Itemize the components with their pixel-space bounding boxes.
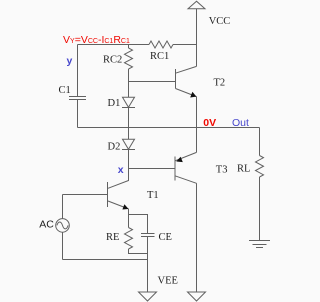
resistor RE xyxy=(125,228,133,250)
diode D2 xyxy=(123,139,135,149)
wire T1 base xyxy=(63,194,108,196)
wire 0V rail xyxy=(78,127,260,129)
transistor T1 emitter arrow xyxy=(122,204,128,209)
transistor T2 emitter xyxy=(176,89,197,97)
svg-text:0V: 0V xyxy=(203,117,216,129)
wire CE bottom to VEE symbol xyxy=(147,237,149,292)
wire RL top lead xyxy=(259,128,261,156)
wire T3 collector to VEE xyxy=(196,183,198,291)
transistor T3 emitter xyxy=(175,152,197,161)
wire D2 to node X and T1 collector xyxy=(108,150,129,189)
svg-text:D2: D2 xyxy=(108,142,121,153)
wire T2 base xyxy=(129,81,176,83)
wire node X to T3 base xyxy=(129,168,176,170)
wire T2 emitter to 0V rail xyxy=(196,97,198,128)
svg-text:T3: T3 xyxy=(216,165,228,176)
source AC sine xyxy=(57,222,68,229)
resistor RL xyxy=(256,156,264,178)
capacitor C1 plates xyxy=(69,97,86,100)
wire AC bottom lead xyxy=(62,232,64,259)
svg-text:x: x xyxy=(118,164,124,176)
wire 0V rail to T3 emitter xyxy=(196,128,198,153)
svg-text:T1: T1 xyxy=(147,190,159,201)
wire AC top lead xyxy=(62,195,64,219)
ground symbol xyxy=(249,241,270,248)
svg-text:T2: T2 xyxy=(214,78,226,89)
transistor T2 base bar xyxy=(175,69,177,89)
wire top rail y xyxy=(78,44,150,46)
svg-text:VEE: VEE xyxy=(158,276,178,287)
svg-text:y: y xyxy=(67,55,73,67)
svg-text:RC2: RC2 xyxy=(103,55,122,66)
transistor T2 emitter arrow xyxy=(190,92,196,98)
wire RC1 to VCC line xyxy=(173,44,197,46)
diode D1 xyxy=(123,97,135,107)
transistor T3 base bar xyxy=(174,157,176,181)
transistor T3 collector xyxy=(175,176,197,184)
power VEE symbol left xyxy=(139,292,157,301)
svg-text:C1: C1 xyxy=(59,85,71,96)
svg-text:CE: CE xyxy=(159,232,172,243)
transistor T1 emitter xyxy=(108,201,129,209)
power VEE symbol right xyxy=(188,292,206,301)
wire VCC vertical xyxy=(196,9,198,67)
svg-text:AC: AC xyxy=(39,219,54,231)
wire bottom rail from AC xyxy=(63,259,148,261)
wire T1 emitter branch to CE xyxy=(129,215,148,234)
svg-text:VCC: VCC xyxy=(209,16,231,27)
transistor T3 emitter arrow xyxy=(176,157,183,162)
svg-text:RL: RL xyxy=(237,164,250,175)
power VCC symbol xyxy=(188,1,205,9)
transistor T2 collector xyxy=(176,66,197,73)
svg-text:Out: Out xyxy=(232,117,249,129)
resistor RC2 xyxy=(125,48,133,69)
wire RC2 bottom lead to D1 xyxy=(128,69,130,97)
svg-text:RE: RE xyxy=(106,232,119,243)
wire RC2 top lead xyxy=(128,45,130,49)
capacitor C1 top lead xyxy=(77,45,79,97)
wire D1 to D2 through 0V rail xyxy=(128,108,130,140)
wire T1 emitter junction down to RE xyxy=(128,209,130,228)
diode D2 cathode bar xyxy=(122,149,135,151)
wire RL bottom lead xyxy=(259,177,261,241)
wire RE bottom to VEE chain xyxy=(129,249,148,254)
capacitor C1 bottom lead xyxy=(77,100,79,128)
svg-text:D1: D1 xyxy=(108,98,121,109)
source AC circle xyxy=(56,219,70,233)
resistor RC1 xyxy=(149,41,173,48)
capacitor CE plates xyxy=(141,234,155,237)
transistor T1 base bar xyxy=(107,182,109,207)
svg-text:RC1: RC1 xyxy=(150,51,169,62)
diode D1 cathode bar xyxy=(122,107,135,109)
